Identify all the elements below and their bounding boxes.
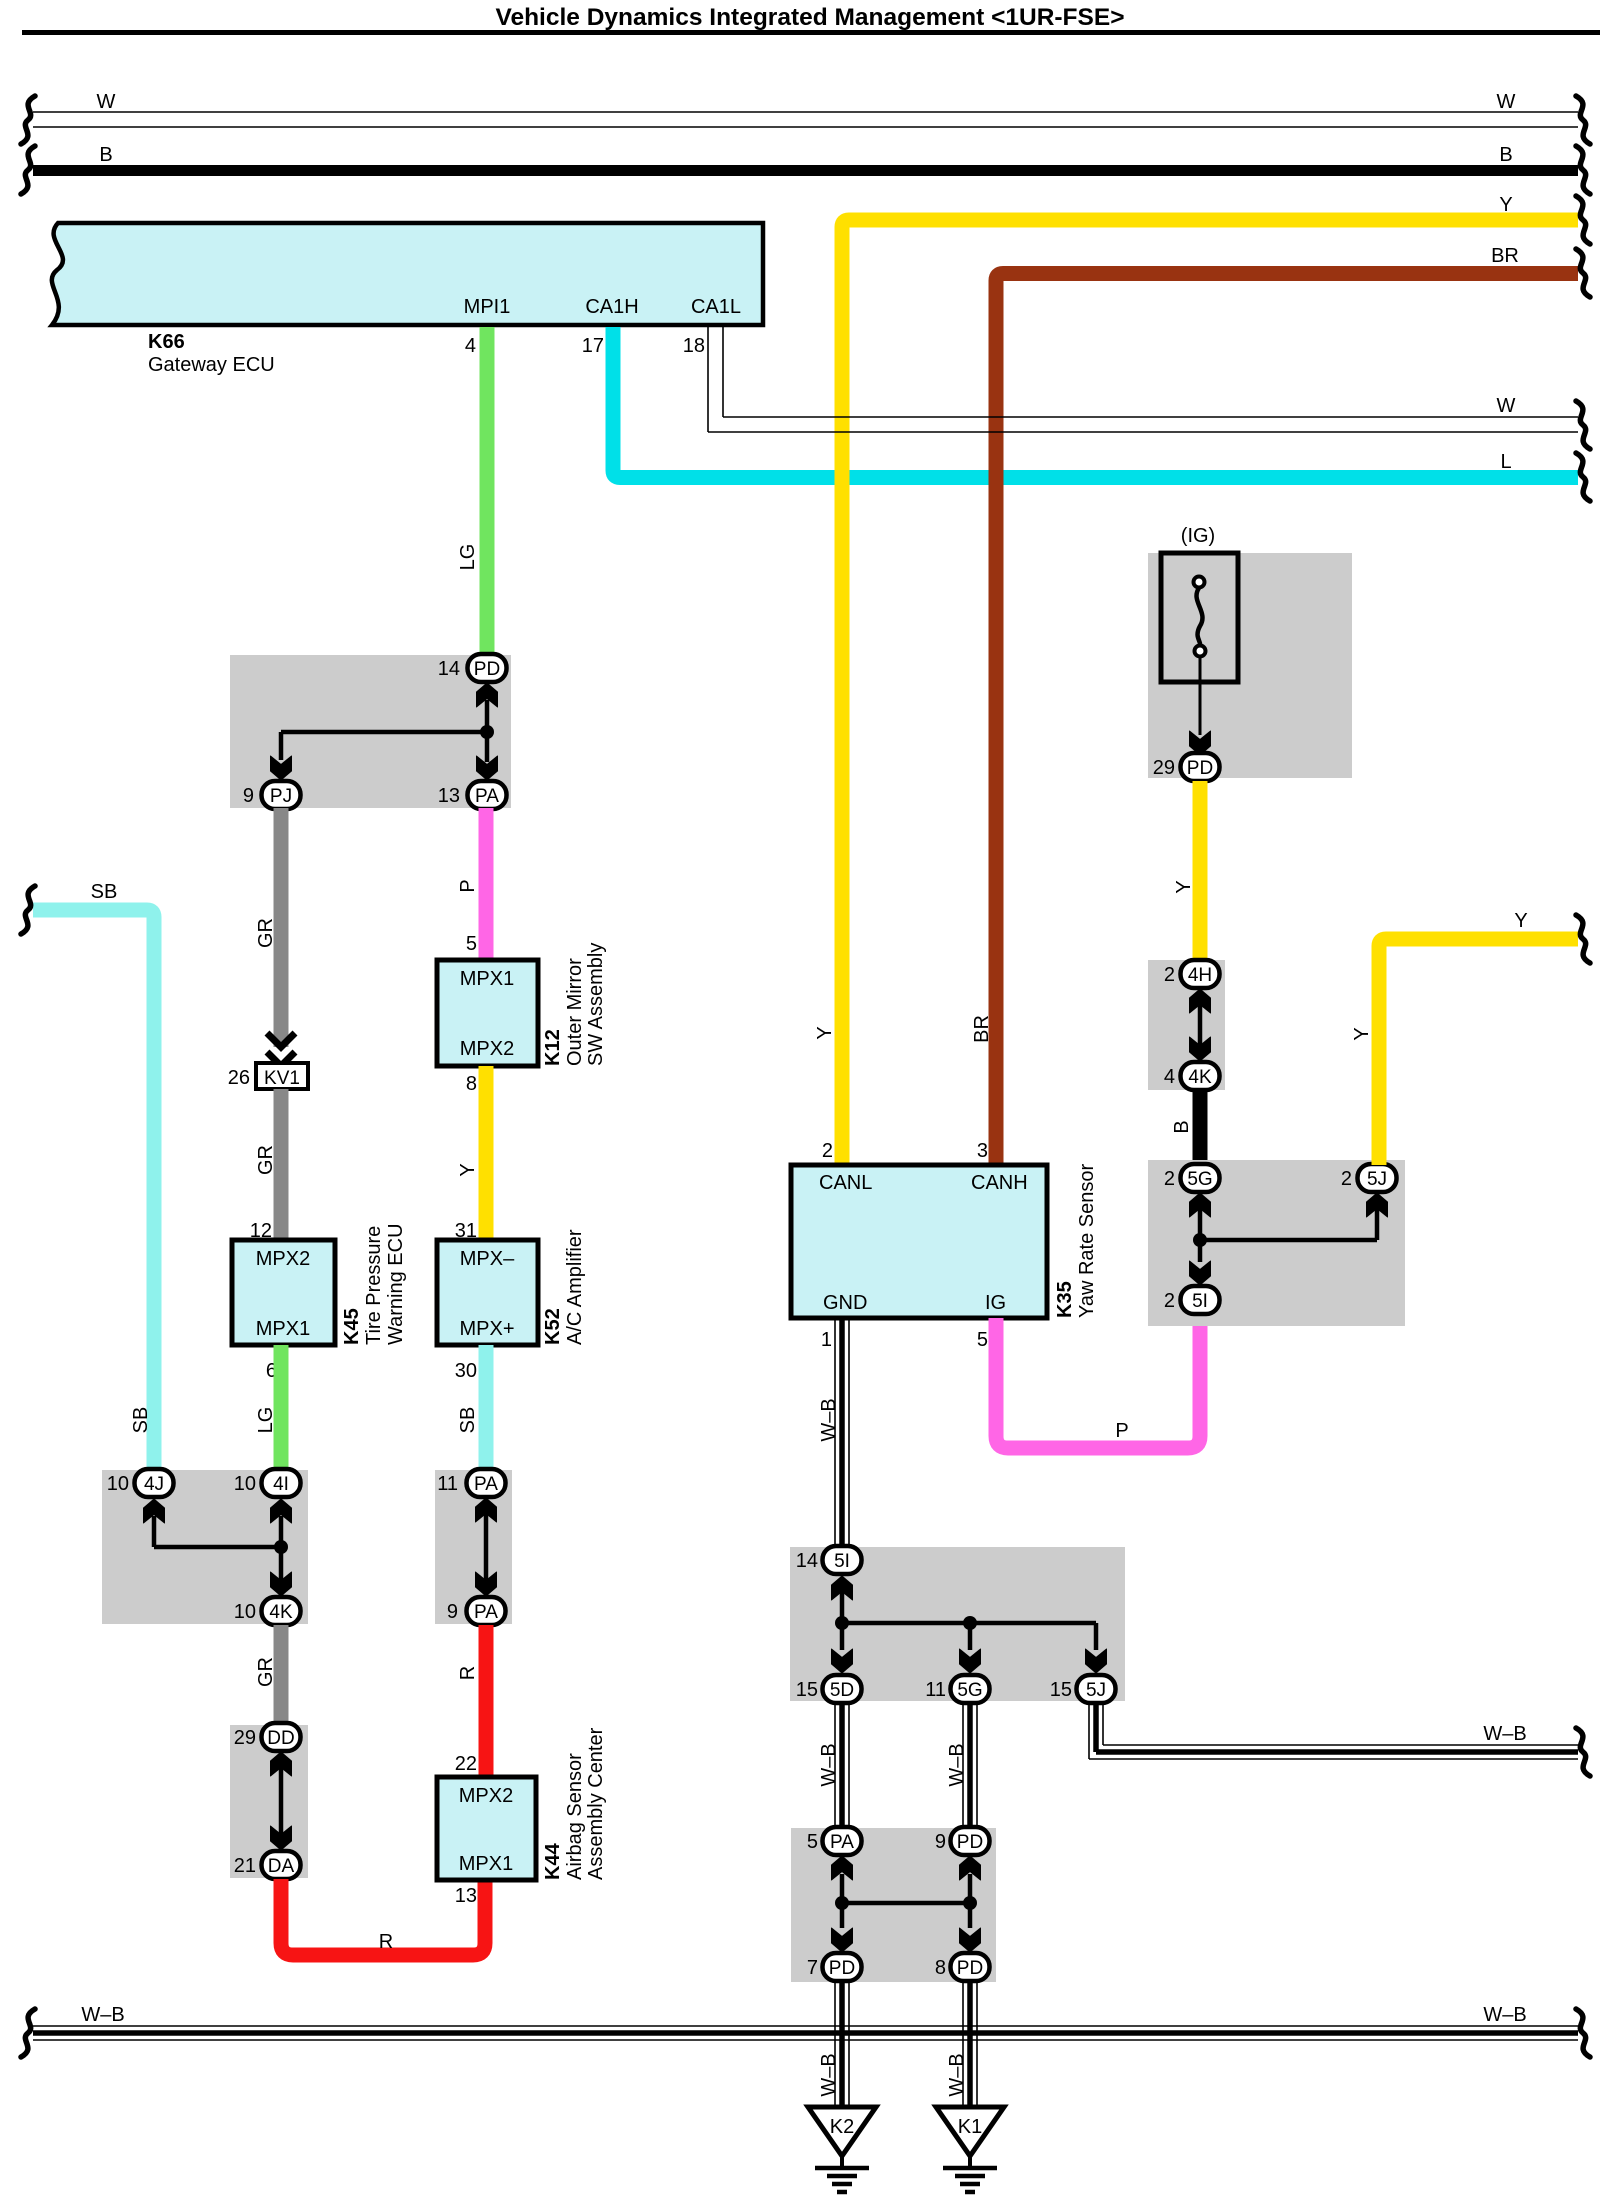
wire in J/C1 (485, 700, 490, 762)
wire Y K12 to K52 (479, 1066, 494, 1240)
connector 9 PJ (243, 781, 301, 809)
svg-text:5: 5 (466, 933, 477, 955)
svg-text:K1: K1 (958, 2116, 982, 2138)
svg-text:Outer Mirror: Outer Mirror (564, 958, 586, 1066)
svg-text:5: 5 (807, 1831, 818, 1853)
svg-text:PD: PD (474, 659, 500, 680)
ECU K44 box (437, 1777, 536, 1880)
junction block J/C 2 (102, 1470, 308, 1624)
svg-text:BR: BR (971, 1015, 993, 1043)
svg-text:SB: SB (130, 1407, 152, 1434)
arrow to DD (271, 1752, 292, 1776)
svg-text:CANH: CANH (971, 1172, 1028, 1194)
svg-text:4K: 4K (1188, 1067, 1212, 1088)
svg-text:Tire Pressure: Tire Pressure (363, 1226, 385, 1345)
svg-text:2: 2 (1164, 1290, 1175, 1312)
arrow to 5I2 (1190, 1261, 1211, 1285)
connector 14 5I (796, 1546, 862, 1574)
svg-text:Y: Y (1499, 194, 1512, 216)
svg-text:2: 2 (1164, 964, 1175, 986)
svg-text:5G: 5G (1187, 1169, 1212, 1190)
svg-text:7: 7 (807, 1957, 818, 1979)
svg-text:B: B (1499, 144, 1512, 166)
brace W-B bus right (1576, 2009, 1590, 2057)
svg-text:15: 15 (1050, 1679, 1072, 1701)
arrow to 5J2 (1086, 1649, 1107, 1673)
svg-text:SB: SB (457, 1407, 479, 1434)
svg-text:13: 13 (455, 1885, 477, 1907)
arrow to 9PD (960, 1856, 981, 1880)
fuse lead wire (1199, 656, 1202, 735)
brace SB left (21, 886, 35, 934)
svg-text:W–B: W–B (818, 1743, 840, 1786)
svg-text:PJ: PJ (270, 786, 292, 807)
brace L right (1576, 453, 1590, 501)
arrow to 4H (1190, 989, 1211, 1013)
svg-text:DA: DA (268, 1856, 295, 1877)
svg-text:MPX+: MPX+ (459, 1318, 514, 1340)
svg-text:CA1L: CA1L (691, 296, 741, 318)
connector 5 PA (807, 1827, 862, 1855)
wire B 4K to 5G (1193, 1090, 1208, 1165)
arrow to 9PA (476, 1572, 497, 1596)
svg-text:GR: GR (255, 1145, 277, 1175)
svg-text:K12: K12 (542, 1029, 564, 1066)
svg-text:5J: 5J (1367, 1169, 1387, 1190)
svg-text:Y: Y (1514, 910, 1527, 932)
svg-text:5J: 5J (1086, 1680, 1106, 1701)
svg-text:CA1H: CA1H (585, 296, 638, 318)
svg-text:MPX–: MPX– (460, 1248, 515, 1270)
wire W-B 7PD to ground (835, 1981, 849, 2107)
arrow to 4I (271, 1499, 292, 1523)
junction block PA/PD (791, 1828, 996, 1982)
svg-text:4: 4 (1164, 1066, 1175, 1088)
svg-text:15: 15 (796, 1679, 818, 1701)
connector 29 DD (234, 1723, 301, 1751)
svg-text:4: 4 (465, 335, 476, 357)
svg-text:21: 21 (234, 1855, 256, 1877)
connector 14 PD (438, 654, 507, 682)
connector 8 PD (935, 1953, 990, 1981)
arrow to 7PD (832, 1928, 853, 1952)
fuse block gray (1148, 553, 1352, 778)
arrow to 8PD (960, 1928, 981, 1952)
junction block PA/PA (435, 1470, 512, 1624)
connector 21 DA (234, 1851, 301, 1879)
svg-text:5G: 5G (957, 1680, 982, 1701)
connector 2 5J (1341, 1164, 1397, 1192)
svg-text:PD: PD (1187, 758, 1213, 779)
svg-text:PD: PD (957, 1958, 983, 1979)
wire GR 4K to DD (274, 1625, 289, 1725)
wire W from CA1L (708, 327, 1578, 432)
connector 10 4K (234, 1597, 301, 1625)
arrow to PD (477, 683, 498, 707)
wire W bus top (33, 112, 1578, 127)
svg-text:4H: 4H (1188, 965, 1212, 986)
wire W-B bus bottom (33, 2026, 1578, 2040)
svg-text:Gateway ECU: Gateway ECU (148, 354, 275, 376)
svg-text:5I: 5I (834, 1551, 850, 1572)
wire SB from left (33, 910, 154, 1470)
brace BR right (1576, 249, 1590, 297)
svg-text:1: 1 (821, 1329, 832, 1351)
arrow to 5G (1190, 1193, 1211, 1217)
svg-text:30: 30 (455, 1360, 477, 1382)
svg-text:W–B: W–B (946, 1743, 968, 1786)
arrow to 11PA (476, 1498, 497, 1522)
svg-text:A/C Amplifier: A/C Amplifier (564, 1229, 586, 1345)
junction block 5I/5D/5G/5J (790, 1547, 1125, 1701)
svg-text:W–B: W–B (818, 1398, 840, 1441)
wire 4H-4K (1198, 996, 1203, 1055)
svg-text:Y: Y (814, 1026, 836, 1039)
wire W-B GND to 5I (835, 1318, 849, 1548)
wire W-B from 5J right (1089, 1703, 1578, 1759)
junction dot 2 (274, 1540, 288, 1554)
arrow to DA (271, 1826, 292, 1850)
ECU K45 box (232, 1240, 335, 1345)
svg-text:K45: K45 (341, 1308, 363, 1345)
junction dot 4 (835, 1616, 849, 1630)
wire P PA to K12 (479, 808, 494, 960)
svg-text:B: B (99, 144, 112, 166)
svg-text:4J: 4J (144, 1474, 164, 1495)
svg-text:MPX2: MPX2 (256, 1248, 310, 1270)
junction block DD/DA (230, 1725, 308, 1878)
svg-text:4K: 4K (269, 1602, 293, 1623)
svg-text:W: W (1497, 395, 1516, 417)
wire SB K52 to PA (479, 1345, 494, 1470)
svg-text:K52: K52 (542, 1308, 564, 1345)
arrow to 5J (1367, 1193, 1388, 1217)
svg-text:GR: GR (255, 1657, 277, 1687)
wire R DA to K44 pin13 (281, 1879, 485, 1955)
svg-text:PA: PA (474, 1602, 498, 1623)
twist chevrons (267, 1033, 295, 1047)
connector 11 PA (437, 1469, 505, 1497)
brace W-B 5J (1576, 1728, 1590, 1776)
svg-text:MPX2: MPX2 (459, 1785, 513, 1807)
svg-text:14: 14 (438, 658, 460, 680)
ground K2 (808, 2107, 876, 2192)
svg-text:W–B: W–B (81, 2004, 124, 2026)
svg-text:K35: K35 (1054, 1281, 1076, 1318)
svg-text:Y: Y (1173, 880, 1195, 893)
svg-text:PA: PA (474, 1474, 498, 1495)
junction dot 6 (835, 1896, 849, 1910)
svg-text:Warning ECU: Warning ECU (385, 1223, 407, 1345)
svg-text:GR: GR (255, 918, 277, 948)
svg-text:MPX1: MPX1 (460, 968, 514, 990)
arrow to 5I (832, 1576, 853, 1600)
svg-text:PD: PD (957, 1832, 983, 1853)
connector 29 PD (1153, 753, 1220, 781)
svg-text:11: 11 (925, 1679, 946, 1701)
connector 11 5G (925, 1675, 989, 1703)
svg-text:Y: Y (457, 1163, 479, 1176)
svg-text:PD: PD (829, 1958, 855, 1979)
svg-text:Vehicle Dynamics Integrated Ma: Vehicle Dynamics Integrated Management <… (495, 4, 1124, 31)
connector 13 PA (438, 781, 507, 809)
svg-text:MPX1: MPX1 (459, 1853, 513, 1875)
ECU K52 box (437, 1240, 538, 1345)
connector 2 4H (1164, 960, 1220, 988)
wire DD-DA (279, 1760, 284, 1843)
svg-text:2: 2 (822, 1140, 833, 1162)
connector 7 PD (807, 1953, 862, 1981)
svg-text:18: 18 (683, 335, 705, 357)
junction block 4H/4K (1148, 960, 1225, 1090)
svg-text:K44: K44 (542, 1842, 564, 1880)
svg-text:4I: 4I (273, 1474, 289, 1495)
svg-text:LG: LG (457, 544, 479, 571)
connector 2 5G (1164, 1164, 1220, 1192)
junction block 5G/5J/5I (1148, 1160, 1405, 1326)
svg-text:IG: IG (985, 1292, 1006, 1314)
svg-text:5: 5 (977, 1329, 988, 1351)
wire L cyan from CA1H (613, 327, 1578, 478)
svg-text:W–B: W–B (1483, 2004, 1526, 2026)
sensor K35 box (791, 1165, 1047, 1318)
connector 9 PA (447, 1597, 506, 1625)
svg-text:14: 14 (796, 1550, 818, 1572)
wire Y PD to 4H (1193, 781, 1208, 960)
svg-text:10: 10 (234, 1473, 256, 1495)
connector 4 4K (1164, 1062, 1220, 1090)
junction block J/C 1 (230, 655, 511, 808)
svg-text:2: 2 (1164, 1168, 1175, 1190)
wire GR KV1 to K45 (274, 1089, 289, 1240)
svg-text:DD: DD (267, 1728, 294, 1749)
svg-text:CANL: CANL (819, 1172, 872, 1194)
svg-text:17: 17 (582, 335, 604, 357)
arrow to 4K (271, 1572, 292, 1596)
arrow to 5D (832, 1649, 853, 1673)
brace Y right2 (1576, 915, 1590, 963)
wire P IG to 5I (996, 1318, 1200, 1448)
wire W-B 5G down (963, 1703, 977, 1828)
wire Y right 5J (1379, 939, 1578, 1165)
brace B left (21, 146, 35, 194)
shield KV1 box (256, 1063, 308, 1089)
svg-text:R: R (457, 1666, 479, 1680)
ground K1 (936, 2107, 1004, 2192)
svg-text:13: 13 (438, 785, 460, 807)
svg-text:8: 8 (935, 1957, 946, 1979)
svg-text:GND: GND (823, 1292, 867, 1314)
svg-text:29: 29 (1153, 757, 1175, 779)
svg-text:K2: K2 (830, 2116, 854, 2138)
svg-text:9: 9 (935, 1831, 946, 1853)
svg-text:LG: LG (255, 1407, 277, 1434)
brace W left (21, 96, 35, 144)
junction dot 5 (963, 1616, 977, 1630)
svg-text:P: P (1115, 1420, 1128, 1442)
svg-text:Airbag Sensor: Airbag Sensor (564, 1753, 586, 1880)
svg-text:K66: K66 (148, 331, 185, 353)
junction dot 7 (963, 1896, 977, 1910)
svg-text:W: W (1497, 91, 1516, 113)
svg-text:P: P (457, 879, 479, 892)
wire W-B 5D down (835, 1703, 849, 1828)
junction dot 3 (1193, 1233, 1207, 1247)
connector 9 PD (935, 1827, 990, 1855)
fuse 10A ECU-IG LH (1161, 553, 1238, 682)
svg-text:Yaw Rate Sensor: Yaw Rate Sensor (1076, 1164, 1098, 1318)
arrow to 4J (144, 1499, 165, 1523)
wire Y vertical+horizontal (842, 220, 1578, 1165)
brace W right (1576, 96, 1590, 144)
wire PA-PA (484, 1506, 489, 1589)
svg-text:PA: PA (830, 1832, 854, 1853)
svg-text:10: 10 (234, 1601, 256, 1623)
svg-text:PA: PA (475, 786, 499, 807)
svg-text:Y: Y (1351, 1027, 1373, 1040)
wire LG from MPI1 (480, 327, 495, 655)
wire LG K45 to 4I (274, 1345, 289, 1470)
svg-text:Assembly Center: Assembly Center (585, 1727, 607, 1880)
svg-text:22: 22 (455, 1753, 477, 1775)
svg-text:MPX2: MPX2 (460, 1038, 514, 1060)
wires in 5I box (840, 1591, 845, 1650)
svg-text:W–B: W–B (1483, 1723, 1526, 1745)
arrow to 29PD (1190, 731, 1211, 755)
svg-text:10: 10 (107, 1473, 129, 1495)
junction dot 1 (480, 725, 494, 739)
svg-text:SW Assembly: SW Assembly (585, 943, 607, 1066)
svg-text:11: 11 (437, 1473, 458, 1495)
brace B right (1576, 146, 1590, 194)
svg-text:W: W (97, 91, 116, 113)
connector 2 5I (1164, 1286, 1220, 1314)
ECU K12 box (437, 960, 538, 1066)
arrow to PJ (271, 756, 292, 780)
svg-text:29: 29 (234, 1727, 256, 1749)
svg-text:W–B: W–B (946, 2053, 968, 2096)
svg-text:8: 8 (466, 1073, 477, 1095)
connector 10 4J (107, 1469, 174, 1497)
title underline (22, 30, 1600, 35)
svg-text:9: 9 (447, 1601, 458, 1623)
svg-text:3: 3 (977, 1140, 988, 1162)
wire BR vertical+horizontal (996, 274, 1578, 1166)
svg-text:MPI1: MPI1 (464, 296, 511, 318)
connector 10 4I (234, 1469, 301, 1497)
svg-text:R: R (379, 1931, 393, 1953)
svg-text:26: 26 (228, 1067, 250, 1089)
arrow to PA (477, 756, 498, 780)
svg-text:BR: BR (1491, 245, 1519, 267)
svg-text:5I: 5I (1192, 1291, 1208, 1312)
svg-text:5D: 5D (830, 1680, 854, 1701)
brace W2 right (1576, 401, 1590, 449)
connector 15 5J (1050, 1675, 1116, 1703)
brace Y right (1576, 196, 1590, 244)
brace W-B bus left (21, 2009, 35, 2057)
wire GR PJ to KV1 (274, 808, 289, 1047)
arrow to 5G2 (960, 1649, 981, 1673)
arrow to 4K2 (1190, 1037, 1211, 1061)
wire R 9PA to K44 (479, 1625, 494, 1777)
svg-text:MPX1: MPX1 (256, 1318, 310, 1340)
svg-text:B: B (1171, 1120, 1193, 1133)
wire W-B 8PD to ground (963, 1981, 977, 2107)
svg-text:SB: SB (91, 881, 118, 903)
wires in 5G box (1198, 1196, 1203, 1262)
svg-text:KV1: KV1 (264, 1068, 300, 1089)
ECU K66 box (52, 223, 763, 325)
arrow to 5PA (832, 1856, 853, 1880)
svg-text:W–B: W–B (818, 2053, 840, 2096)
wire B bus (33, 165, 1578, 176)
svg-text:9: 9 (243, 785, 254, 807)
connector 15 5D (796, 1675, 862, 1703)
svg-text:L: L (1500, 451, 1511, 473)
wires in PA/PD box (840, 1874, 845, 1928)
svg-text:(IG): (IG) (1181, 525, 1215, 547)
svg-text:2: 2 (1341, 1168, 1352, 1190)
wires in J/C2 (279, 1516, 284, 1623)
